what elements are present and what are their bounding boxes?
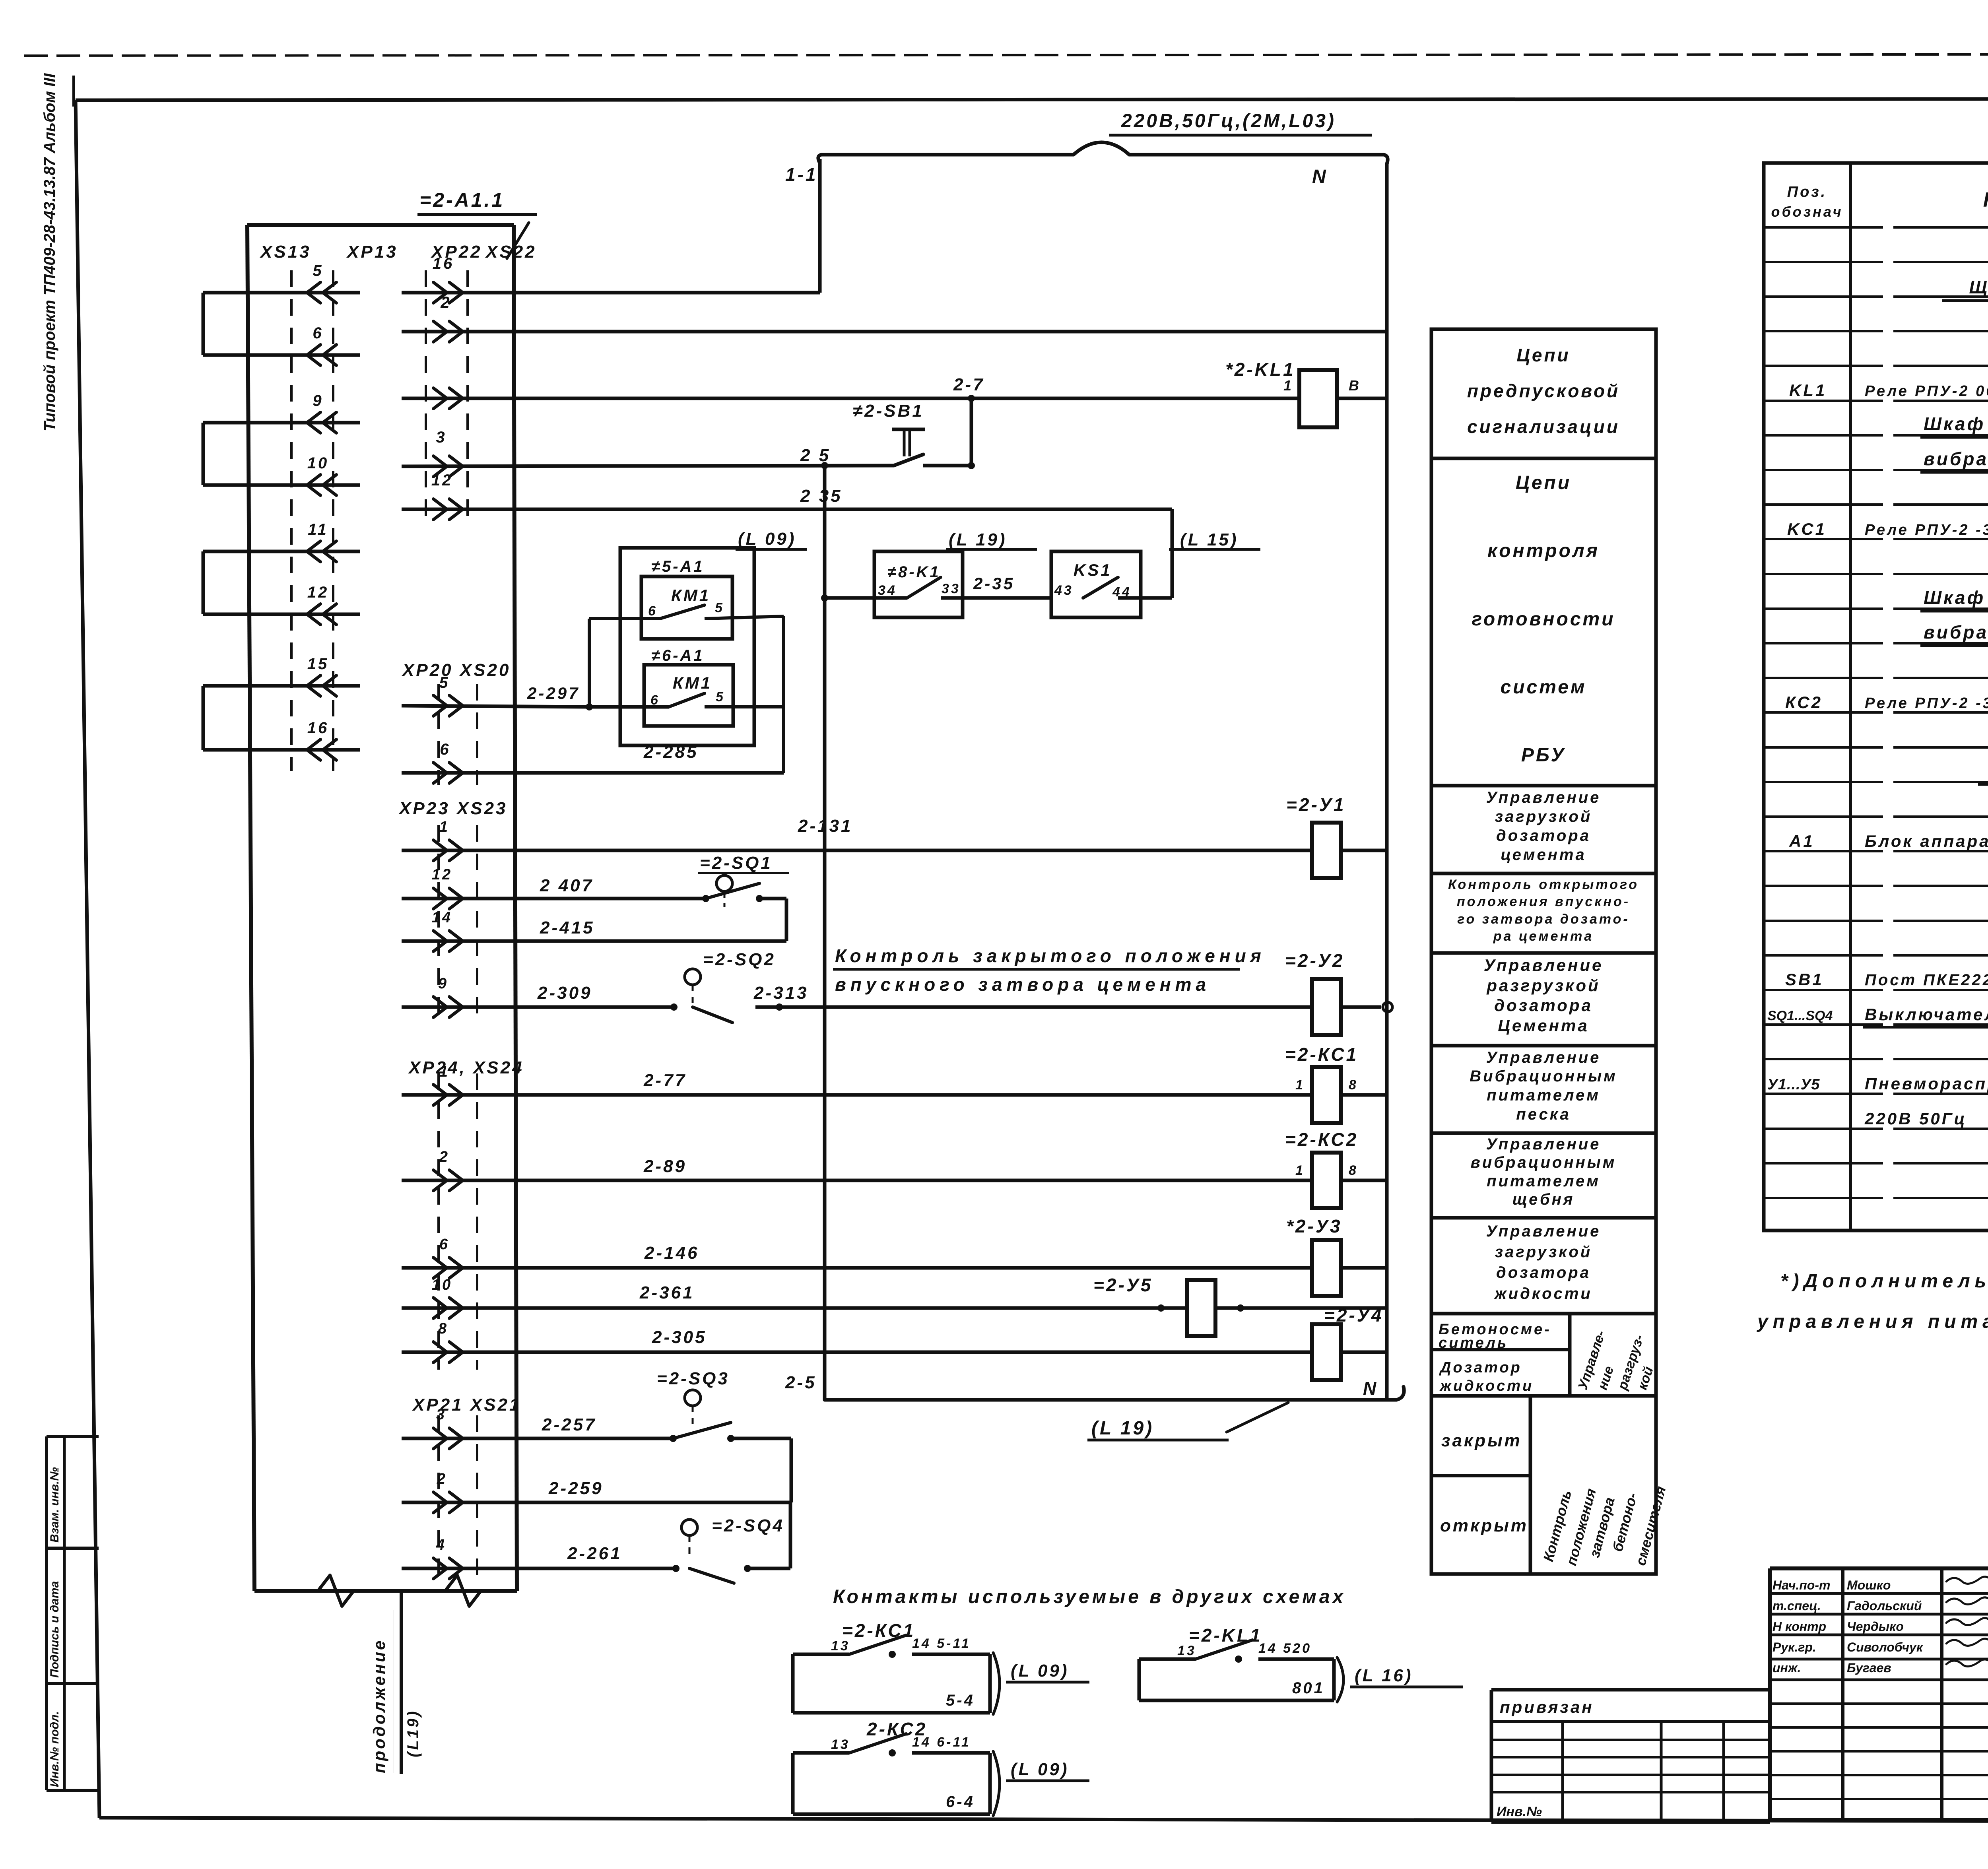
svg-text:РБУ: РБУ [1521,745,1566,766]
svg-text:≠6-A1: ≠6-A1 [651,647,705,664]
svg-text:XP13: XP13 [346,242,398,262]
svg-text:инж.: инж. [1773,1661,1801,1675]
svg-text:=2-У4: =2-У4 [1324,1305,1384,1326]
svg-text:Мошко: Мошко [1847,1578,1891,1592]
svg-text:2-146: 2-146 [644,1243,699,1263]
svg-text:(L 16): (L 16) [1355,1666,1413,1685]
svg-text:801: 801 [1292,1679,1325,1697]
svg-text:10: 10 [307,454,329,472]
svg-text:XS13: XS13 [259,242,311,262]
svg-text:=2-КС1: =2-КС1 [1285,1044,1358,1065]
svg-text:2-7: 2-7 [953,375,985,394]
svg-text:5: 5 [313,262,323,279]
svg-text:2-35: 2-35 [973,574,1015,593]
svg-text:SQ1...SQ4: SQ1...SQ4 [1767,1008,1833,1023]
svg-text:го затвора дозато-: го затвора дозато- [1457,912,1630,927]
svg-text:Поз.: Поз. [1787,184,1827,200]
svg-text:(L 19): (L 19) [949,530,1007,549]
svg-text:дозатора: дозатора [1494,996,1593,1015]
svg-text:загрузкой: загрузкой [1495,1243,1592,1261]
svg-text:5-4: 5-4 [946,1692,975,1709]
svg-text:открыт: открыт [1440,1516,1528,1535]
svg-text:Контроль закрытого положения: Контроль закрытого положения [835,945,1266,966]
svg-text:загрузкой: загрузкой [1495,808,1592,825]
svg-text:Взам. инв.№: Взам. инв.№ [48,1467,61,1543]
svg-text:2-257: 2-257 [542,1415,597,1434]
svg-text:Вибрационным: Вибрационным [1470,1067,1617,1085]
svg-text:песка: песка [1516,1106,1571,1123]
svg-text:Шкаф управления питателем: Шкаф управления питателем [1924,587,1988,608]
svg-text:Дозатор: Дозатор [1439,1359,1522,1376]
svg-text:впускного затвора цемента: впускного затвора цемента [835,974,1210,995]
svg-text:Н контр: Н контр [1773,1619,1826,1634]
svg-text:2 35: 2 35 [800,486,843,506]
svg-text:Блок аппаратуры управления БАУ: Блок аппаратуры управления БАУ-5 [1865,832,1988,850]
svg-text:=2-КС1: =2-КС1 [842,1620,915,1641]
svg-text:КМ1: КМ1 [671,586,711,605]
svg-text:щебня: щебня [1512,1191,1575,1208]
svg-text:2-305: 2-305 [652,1328,707,1347]
svg-text:220В 50Гц: 220В 50Гц [1864,1109,1967,1128]
svg-text:6: 6 [648,604,658,619]
svg-text:1: 1 [439,819,450,835]
svg-text:1: 1 [1283,377,1293,394]
svg-text:16: 16 [307,719,329,737]
svg-text:привязан: привязан [1500,1698,1594,1716]
svg-text:43: 43 [1054,583,1074,598]
svg-text:систем: систем [1501,677,1587,698]
svg-text:(L 19): (L 19) [1091,1418,1154,1439]
svg-text:Управление: Управление [1486,789,1601,806]
svg-text:XS22: XS22 [485,242,537,262]
svg-text:2-77: 2-77 [643,1071,687,1090]
svg-text:В: В [1349,377,1361,394]
svg-text:Типовой проект ТП409-28-43.13.: Типовой проект ТП409-28-43.13.87 Альбом … [41,73,58,431]
svg-text:1: 1 [439,1064,450,1080]
svg-text:6: 6 [313,324,323,342]
svg-text:2-131: 2-131 [798,816,853,836]
svg-text:Шкаф управления питателем: Шкаф управления питателем [1924,413,1988,434]
svg-text:Рук.гр.: Рук.гр. [1773,1640,1816,1654]
svg-text:закрыт: закрыт [1441,1431,1522,1450]
svg-text:3: 3 [436,429,447,446]
svg-text:готовности: готовности [1472,609,1615,630]
svg-text:положения впускно-: положения впускно- [1457,894,1630,909]
svg-text:14 520: 14 520 [1258,1641,1312,1656]
svg-text:КС2: КС2 [1785,693,1823,712]
svg-text:продолжение: продолжение [370,1639,388,1773]
svg-text:8: 8 [1349,1163,1358,1178]
svg-text:≠8-K1: ≠8-K1 [887,563,941,581]
svg-text:Инв.№ подл.: Инв.№ подл. [48,1711,61,1787]
svg-text:N: N [1363,1378,1378,1399]
svg-text:6-4: 6-4 [946,1793,975,1811]
svg-text:Контроль открытого: Контроль открытого [1448,877,1639,892]
svg-text:Щит контроля №1: Щит контроля №1 [1969,277,1988,297]
svg-text:Сиволобчук: Сиволобчук [1847,1640,1924,1654]
svg-text:4: 4 [436,1537,447,1553]
svg-text:Цепи: Цепи [1516,345,1570,365]
svg-text:15: 15 [307,655,329,673]
svg-text:Цепи: Цепи [1516,472,1571,493]
svg-text:2 407: 2 407 [540,876,594,895]
svg-text:8: 8 [438,1320,448,1337]
svg-text:A1: A1 [1789,832,1815,850]
svg-text:9: 9 [438,975,448,992]
svg-text:2-361: 2-361 [639,1283,695,1302]
svg-text:≠5-A1: ≠5-A1 [651,558,705,575]
svg-text:управления питателем вибрацион: управления питателем вибрационным №2 и №… [1757,1311,1988,1332]
svg-text:14: 14 [432,909,452,926]
svg-text:XP24, XS24: XP24, XS24 [408,1058,524,1077]
svg-text:*2-У3: *2-У3 [1286,1216,1342,1236]
svg-text:Бугаев: Бугаев [1847,1661,1891,1675]
svg-text:2: 2 [439,1149,450,1165]
svg-text:Управление: Управление [1486,1223,1601,1240]
svg-text:12: 12 [307,584,329,601]
svg-text:14 6-11: 14 6-11 [912,1735,971,1750]
svg-text:2-285: 2-285 [643,742,699,762]
svg-text:ситель: ситель [1439,1335,1508,1351]
svg-text:2-297: 2-297 [527,684,580,703]
svg-text:9: 9 [313,392,323,410]
svg-text:жидкости: жидкости [1439,1378,1534,1394]
svg-text:2-415: 2-415 [540,918,595,937]
svg-text:(L 09): (L 09) [738,529,796,549]
svg-text:питателем: питателем [1487,1087,1600,1104]
svg-text:вибрационным №3: вибрационным №3 [1924,622,1988,642]
svg-text:разгрузкой: разгрузкой [1486,976,1600,995]
svg-text:2-89: 2-89 [643,1157,687,1176]
svg-text:дозатора: дозатора [1496,827,1591,844]
svg-text:1-1: 1-1 [785,164,817,185]
svg-text:2-313: 2-313 [753,983,809,1003]
svg-text:обознач: обознач [1771,204,1843,220]
svg-text:14 5-11: 14 5-11 [912,1636,971,1651]
svg-text:13: 13 [831,1638,850,1654]
svg-text:1: 1 [1295,1163,1305,1178]
svg-text:2: 2 [437,1471,447,1487]
svg-text:=2-У1: =2-У1 [1286,794,1346,815]
svg-text:=2-KL1: =2-KL1 [1189,1625,1262,1646]
svg-text:13: 13 [1177,1643,1196,1658]
svg-text:=2-SQ4: =2-SQ4 [712,1516,784,1535]
svg-text:3: 3 [436,1406,447,1423]
svg-text:Пост ПКЕ222-1У2 ТУ16-526.Р: Пост ПКЕ222-1У2 ТУ16-526.Р17-78 [1865,971,1988,989]
svg-text:SB1: SB1 [1785,970,1824,989]
svg-text:жидкости: жидкости [1494,1285,1592,1302]
svg-text:8: 8 [1349,1077,1358,1093]
svg-text:Инв.№: Инв.№ [1497,1804,1542,1819]
svg-text:=2-A1.1: =2-A1.1 [419,189,505,211]
svg-text:16: 16 [433,255,454,272]
svg-text:13: 13 [831,1737,850,1752]
svg-text:12: 12 [432,866,452,883]
svg-text:Реле РПУ-2 -36200УЗБ ~220В ТУ1: Реле РПУ-2 -36200УЗБ ~220В ТУ16-523.551-… [1865,522,1988,538]
svg-text:6: 6 [440,741,450,758]
svg-text:2-261: 2-261 [567,1544,622,1563]
svg-text:ра цемента: ра цемента [1493,929,1594,944]
svg-text:(L19): (L19) [404,1709,422,1757]
svg-text:2 5: 2 5 [800,446,831,465]
svg-text:KL1: KL1 [1789,381,1827,400]
svg-text:(L 09): (L 09) [1011,1661,1069,1681]
svg-text:=2-SQ1: =2-SQ1 [700,853,773,873]
svg-text:33: 33 [942,581,961,596]
svg-text:Пневмораспределитель ВСУ-23М: Пневмораспределитель ВСУ-23М [1865,1074,1988,1093]
svg-text:Цемента: Цемента [1498,1016,1589,1035]
svg-text:=2-КС2: =2-КС2 [1285,1129,1358,1150]
svg-text:12: 12 [431,472,453,489]
svg-text:контроля: контроля [1487,540,1600,561]
svg-text:сигнализации: сигнализации [1467,416,1620,437]
svg-text:5: 5 [439,674,450,691]
svg-text:=2-SQ2: =2-SQ2 [703,950,776,969]
svg-text:Управление: Управление [1486,1135,1601,1153]
svg-text:предпусковой: предпусковой [1467,380,1620,401]
svg-text:Управление: Управление [1484,956,1604,974]
svg-text:вибрационным №2: вибрационным №2 [1924,448,1988,469]
svg-text:KS1: KS1 [1074,561,1112,579]
svg-text:N: N [1312,166,1328,187]
svg-text:10: 10 [432,1277,452,1293]
svg-text:питателем: питателем [1487,1172,1600,1190]
svg-text:вибрационным: вибрационным [1471,1154,1617,1171]
svg-text:11: 11 [308,521,328,538]
svg-text:=2-У5: =2-У5 [1093,1275,1153,1295]
svg-text:5: 5 [715,600,724,615]
svg-text:6: 6 [439,1236,450,1253]
svg-text:2-259: 2-259 [548,1479,604,1498]
svg-text:Нач.по-т: Нач.по-т [1773,1578,1830,1592]
svg-text:Гадольский: Гадольский [1847,1599,1922,1613]
svg-text:У1...У5: У1...У5 [1767,1076,1820,1093]
svg-text:цемента: цемента [1501,846,1586,864]
svg-text:2: 2 [440,294,451,311]
svg-text:Чердыко: Чердыко [1847,1619,1904,1634]
svg-text:КМ1: КМ1 [673,673,712,692]
svg-text:Контакты используемые в других: Контакты используемые в других схемах [833,1586,1346,1607]
svg-text:=2-SQ3: =2-SQ3 [657,1369,730,1388]
svg-text:1: 1 [1295,1077,1305,1093]
svg-text:Наименование: Наименование [1983,188,1988,212]
svg-text:Выключатель конечный: Выключатель конечный [1865,1005,1988,1024]
svg-text:2-5: 2-5 [785,1373,817,1392]
svg-text:Реле РПУ-2 06200УЗБ ~220В ТУ16: Реле РПУ-2 06200УЗБ ~220В ТУ16-523.331-7… [1865,383,1988,400]
svg-text:2-309: 2-309 [537,983,592,1003]
svg-text:Управление: Управление [1486,1049,1601,1066]
svg-text:т.спец.: т.спец. [1773,1599,1821,1613]
svg-text:XP21 XS21: XP21 XS21 [412,1395,521,1415]
svg-text:XP20 XS20: XP20 XS20 [401,660,511,680]
svg-text:5: 5 [716,689,725,705]
svg-text:220В,50Гц,(2М,L03): 220В,50Гц,(2М,L03) [1121,111,1336,132]
svg-text:34: 34 [878,583,897,598]
svg-text:(L 09): (L 09) [1011,1760,1069,1779]
svg-text:*2-KL1: *2-KL1 [1225,359,1295,380]
svg-text:Подпись и дата: Подпись и дата [48,1581,61,1678]
svg-text:≠2-SB1: ≠2-SB1 [853,401,924,421]
svg-text:*)Дополнительно установить при: *)Дополнительно установить при монтаже в… [1780,1271,1988,1292]
svg-text:XP23 XS23: XP23 XS23 [398,799,508,818]
svg-text:дозатора: дозатора [1496,1264,1591,1281]
svg-text:Реле РПУ-2 -36200УЗБ ~220В ТУ1: Реле РПУ-2 -36200УЗБ ~220В ТУ16-523.331-… [1865,695,1988,712]
svg-text:(L 15): (L 15) [1180,530,1239,549]
svg-text:KC1: KC1 [1787,520,1827,538]
svg-text:=2-У2: =2-У2 [1285,950,1345,971]
